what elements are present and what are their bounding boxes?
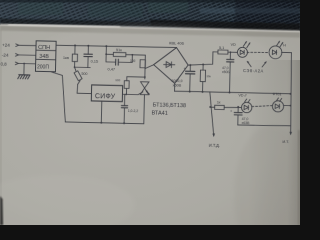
svg-text:СИФУ: СИФУ [95,93,116,100]
resistor R7 5,1 [213,46,238,55]
svg-text:VD //: VD // [238,93,246,97]
node [202,91,204,93]
svg-text:100: 100 [115,78,120,82]
wire [23,64,25,75]
resistor R8 1к [210,100,241,110]
node [144,76,146,78]
wire (optical link dashed) [247,51,269,54]
node [189,64,191,66]
svg-text:-24: -24 [2,52,9,57]
capacitor C2 0,47 [106,54,133,72]
LED VD1 (emitter) [230,41,250,58]
resistor R1 1кв [63,45,78,67]
photodetector VD2 [269,40,286,59]
svg-text:+: + [230,109,232,113]
svg-text:КВL 406: КВL 406 [169,40,185,45]
wire (right bus down) [290,53,293,134]
node [289,93,291,95]
resistor R6 10к [200,64,212,92]
node [100,122,102,124]
node [74,66,76,68]
svg-text:х50Б: х50Б [222,70,230,74]
photodetector VT1 ФТ01 [272,92,284,112]
svg-text:5,1: 5,1 [219,46,224,50]
wire (branch down with arrow И.Т.Д.) [209,92,215,136]
wire [105,46,107,54]
node [202,63,204,65]
svg-text:СЭ8-А2А: СЭ8-А2А [243,68,264,73]
dark sliver bottom-left [0,196,3,225]
shadow band under paper edge [0,26,300,38]
capacitor C6 polarized [230,107,251,126]
power module U1 СПН 34В 200П [35,41,56,72]
wire (lower return) [238,125,291,127]
control unit U2 СИФУ [91,85,122,102]
svg-text:ВТА41: ВТА41 [151,110,167,116]
wire (SIFU bottom to bottom rail) [100,101,102,123]
wire (bottom rail left section) [65,122,143,124]
resistor R2 500 (diagonal) [74,67,88,84]
wire (DC- rail) [175,91,291,94]
node (junction on 0V wire) [23,63,25,65]
svg-text:И.Т.Д.: И.Т.Д. [209,143,220,148]
wire [19,44,36,46]
wire (top rail from U1 to bridge) [56,45,176,48]
svg-text:0,47: 0,47 [107,67,115,72]
node [290,105,292,107]
node [237,106,239,108]
svg-text:VD: VD [231,43,237,47]
svg-text:200П: 200П [37,64,49,70]
wire (DC+ from bridge) [188,51,213,65]
svg-text:0,15: 0,15 [91,59,98,63]
capacitor C4 1000,0 x50В [171,65,195,92]
wire (U1 bottom down) [49,72,66,122]
svg-text:И.Т.: И.Т. [282,140,289,144]
node [189,90,191,92]
LED VD3 (emitter) [238,93,252,113]
capacitor C1 0,15 [84,46,99,68]
paper right shading [248,60,300,225]
node [125,93,127,95]
paper edge highlight [0,25,300,32]
node [105,45,107,47]
wire (to bridge AC left) [145,65,154,69]
svg-text:1,0-2,2: 1,0-2,2 [128,109,139,113]
svg-text:100: 100 [130,59,136,63]
fabric shadow under edge [0,19,150,28]
node [123,122,125,124]
resistor R5 (gate) [124,77,145,95]
wire arrow continuation [289,132,292,136]
wire [284,104,291,106]
wire [19,54,36,56]
node [230,51,232,53]
node [131,54,133,56]
svg-text:51к: 51к [116,48,122,52]
svg-text:ФТ01: ФТ01 [272,92,281,96]
wire (gate) [122,91,142,94]
node [74,44,76,46]
svg-text:СПН: СПН [38,45,50,51]
svg-text:Н: Н [283,43,286,47]
svg-text:0,8: 0,8 [1,62,8,67]
wire [75,66,91,68]
wire (bridge minus down) [174,83,176,91]
svg-text:500: 500 [81,72,87,76]
triac VS1 [140,82,149,124]
svg-text:34В: 34В [39,54,49,60]
node [105,53,107,55]
label triac types [145,90,186,117]
wire [132,55,146,79]
bridge rectifier D1 KBL406 [153,40,188,84]
node [209,106,211,108]
label optocoupler type [243,61,267,74]
node [87,45,89,47]
ground [18,75,30,79]
paper sheet [0,25,300,225]
node [229,91,231,93]
svg-text:х50В: х50В [173,84,182,88]
capacitor C5 47,0 x50Б [222,52,235,92]
resistor R3 51к [106,48,132,57]
svg-text:1000,0: 1000,0 [171,79,182,83]
wire (to SIFU input) [77,84,92,93]
svg-text:БТ136,БТ138: БТ136,БТ138 [153,102,186,109]
svg-text:1к: 1к [217,101,221,105]
soft blotches [0,175,135,235]
svg-text:1кв: 1кв [63,56,69,60]
wire [282,51,292,53]
wire [18,62,35,64]
wire (optical link dashed) [252,105,272,107]
capacitor C3 1,0-2,2 [121,94,139,123]
svg-text:+24: +24 [2,43,10,48]
resistor R4 100 [130,59,146,68]
